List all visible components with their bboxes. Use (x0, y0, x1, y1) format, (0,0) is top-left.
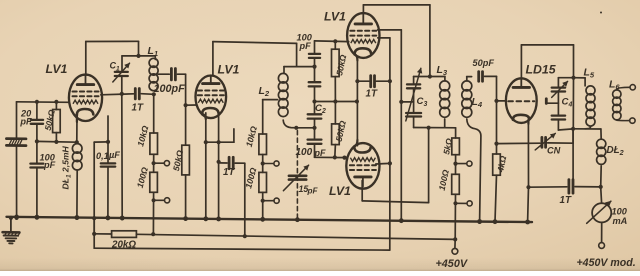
wire +450 stem (454, 239, 456, 248)
junction col2 bus (261, 217, 265, 221)
wire input left column bottom (16, 146, 18, 218)
resistor 50kΩ tube2 grid leak (171, 105, 189, 219)
junction tap3 (261, 161, 265, 165)
wire C3 mid (413, 89, 415, 112)
svg-text:LV1: LV1 (329, 184, 351, 198)
wire x401 to bus (400, 102, 402, 221)
junction 0.1uF bus (106, 216, 110, 220)
wire L1 100pF tap (158, 73, 169, 75)
wire x357 down (356, 81, 358, 146)
wire L1 column (153, 94, 155, 133)
wire upper tube fil lead (347, 41, 348, 43)
inductor L2 (278, 67, 296, 128)
junction L4 bus (478, 220, 482, 224)
svg-text:1T: 1T (223, 167, 235, 178)
junction L2 link col (312, 65, 316, 69)
junction 1T3 left (355, 79, 359, 83)
wire 100Ω2 to bus (262, 192, 264, 219)
svg-text:1T: 1T (560, 195, 572, 206)
junction x401 bus (399, 219, 403, 223)
junction t2cath bus (204, 217, 208, 221)
wire osc col top (314, 41, 316, 53)
wire LD15 plate to tank (521, 45, 573, 78)
wire lower grid lead (376, 162, 390, 165)
junction LD15 grid (494, 99, 498, 103)
label C3 (417, 96, 428, 108)
wire C4 bottom link (558, 121, 573, 131)
wire tube2 cathode lead (205, 113, 207, 142)
junction node x77 (75, 140, 79, 144)
junction C1 grid (120, 92, 124, 96)
svg-text:1T: 1T (366, 88, 378, 99)
capacitor 100pF osc top (297, 33, 321, 58)
junction tap6 (453, 201, 457, 205)
capacitor C1 trimmer (110, 61, 130, 83)
junction C3 tap (399, 100, 403, 104)
capacitor 50pF (473, 58, 495, 81)
capacitor CN trimmer (535, 133, 560, 155)
resistor 5kΩ (441, 128, 459, 156)
label C4 (562, 97, 573, 109)
wire tank right side (572, 78, 574, 129)
capacitor C3 upper (407, 77, 420, 89)
inductor DL1 2.5mH (61, 144, 82, 218)
label LV1 third (324, 10, 346, 24)
wire tube1 grid rail (101, 94, 134, 95)
junction 4k bus (493, 219, 497, 223)
wire tank bottom out (573, 128, 601, 130)
wire tank top (414, 76, 445, 78)
terminal +450V mod (599, 243, 605, 249)
terminal tap3 (274, 161, 279, 166)
wire cathode node y142 (37, 140, 77, 143)
wire osc col s4 (314, 120, 316, 139)
inductor L6 (613, 87, 630, 120)
wire 100Ω3 down (454, 194, 456, 239)
capacitor 1T first (132, 89, 144, 114)
junction x245 middle rail (243, 234, 247, 238)
capacitor 1T fourth (529, 180, 601, 206)
wire osc col s2 (314, 59, 316, 81)
wire upper grid1 lead (378, 30, 402, 102)
label L3 (437, 64, 448, 77)
junction meter top (599, 185, 603, 189)
junction rail x37 (35, 100, 39, 104)
capacitor 15pF variable (283, 165, 318, 195)
junction CN tap (494, 142, 498, 146)
label L2 (259, 85, 270, 98)
label DL2 (607, 145, 624, 157)
junction 50k4 bottom (333, 155, 337, 159)
wire C4L5 to 1T4 (572, 129, 574, 181)
wire lower plate lead (362, 128, 428, 203)
label LV1 first (46, 62, 68, 76)
junction +450 rail (453, 237, 457, 241)
junction plate rail corner (136, 54, 140, 58)
wire 100pF to bus (36, 169, 38, 218)
capacitor 100pF input (30, 141, 55, 169)
junction x357 y101 (355, 99, 359, 103)
junction cath 1T4 (526, 185, 530, 189)
junction 50k2 bus (184, 217, 188, 221)
wire 1T to L1 bottom (141, 93, 154, 96)
tube LV1 second (196, 76, 227, 120)
resistor 100Ω third (437, 168, 460, 194)
terminal L6 bottom (630, 118, 635, 123)
inductor L4 (462, 77, 481, 222)
junction 1T2 left (217, 160, 221, 164)
junctions on ground bus (14, 215, 530, 225)
svg-text:pF: pF (299, 41, 312, 51)
wire grid2 into tube (186, 104, 197, 106)
label LV1 fourth (329, 184, 351, 198)
wire LD15 cathode (527, 119, 530, 221)
junction rail x56 (54, 100, 58, 104)
junction cath bus (526, 220, 530, 224)
inductor L5 (574, 78, 596, 129)
junction DL1 bus (75, 216, 79, 220)
wire C4 mid tap (546, 93, 558, 115)
svg-text:+450V: +450V (436, 258, 468, 270)
junction col y101 (312, 99, 316, 103)
junction x94 bus (92, 216, 96, 220)
ground (3, 218, 20, 244)
label L6 (609, 79, 620, 92)
wire tap3 branch (263, 163, 274, 165)
capacitor C4 upper (552, 78, 568, 98)
wire upper grid2 lead (378, 38, 390, 81)
junction tube2 cathode (204, 140, 208, 144)
wire osc col s5 (314, 145, 316, 158)
wire L2 tap link (263, 100, 278, 134)
junction 0.1uF node (106, 140, 110, 144)
tube LV1 first (69, 75, 102, 122)
wire +450V middle rail left (94, 233, 111, 235)
inductor L3 (440, 77, 450, 128)
wire upper plate to tank (363, 5, 430, 77)
junction tube2 grid (184, 103, 188, 107)
wire C4 top link (558, 77, 573, 79)
junction x218 bus (217, 217, 221, 221)
wire LD15 grid wire (497, 100, 507, 102)
wire bottom return rail (94, 248, 390, 250)
terminal tap2 (165, 198, 170, 203)
junction input column bus (15, 216, 19, 220)
terminal tap1 (164, 161, 169, 166)
junction tank bottom (427, 126, 431, 130)
svg-text:pF: pF (307, 186, 319, 195)
wire osc col s3 (314, 87, 316, 113)
terminal tap6 (467, 201, 472, 206)
resistor 50kΩ fourth (332, 102, 348, 158)
wire tap5 branch (456, 163, 467, 165)
wire C1 top lead (121, 56, 123, 71)
junction C4 bottom (571, 127, 575, 131)
junction col127 (312, 126, 316, 130)
wire 0.1uF top link (94, 116, 108, 234)
junction 1T3 right (388, 79, 392, 83)
junction 50k3 top (333, 39, 337, 43)
terminal L6 top (630, 85, 635, 90)
wire 0.1uF to bus (107, 168, 109, 219)
junction x218 node (217, 140, 221, 144)
junction tap4 (261, 199, 265, 203)
wire upper cathode lead (356, 58, 358, 82)
wire tube2 fil lead (218, 115, 220, 161)
wire x390 down (389, 81, 391, 250)
wire main ground bus (7, 217, 533, 222)
wire tap1 branch (154, 162, 165, 164)
svg-text:+450V mod.: +450V mod. (577, 257, 636, 269)
resistor 100Ω second (243, 166, 266, 192)
junction node x37 (35, 139, 39, 143)
junction tap2 (152, 198, 156, 202)
tube LV1 fourth flipped (346, 140, 379, 189)
junction 100pF bus (35, 216, 39, 220)
junction ground stem (9, 216, 13, 220)
wire 100Ω to middle rail (152, 192, 154, 234)
svg-text:LV1: LV1 (46, 62, 68, 76)
junction L2 bottom (294, 126, 298, 130)
svg-text:pF: pF (19, 117, 32, 127)
svg-text:CN: CN (547, 146, 561, 156)
label LD15 (526, 63, 556, 77)
wire L2 top link (284, 66, 315, 68)
junction lower tube edge (342, 156, 346, 160)
capacitor C4 lower (552, 116, 565, 120)
svg-text:100: 100 (612, 207, 628, 217)
resistor 4kΩ grid leak (493, 101, 509, 222)
wire L2 bottom link (296, 127, 314, 129)
wire top rail right (315, 40, 349, 43)
svg-text:50pF: 50pF (473, 58, 495, 68)
wire 10k2 link (262, 155, 264, 173)
capacitor 1T second (223, 157, 235, 178)
capacitor 1T third (366, 76, 378, 100)
svg-text:1T: 1T (132, 102, 144, 113)
wire C1 bottom lead (121, 77, 123, 94)
wire 50pF left (467, 76, 472, 78)
label L5 (584, 67, 595, 80)
wire 20pF to node (36, 125, 38, 142)
wire CN right (548, 129, 574, 143)
svg-text:LV1: LV1 (324, 10, 346, 24)
inductor DL2 (597, 129, 606, 187)
wire bus-to-rails drop at x94 (93, 218, 95, 248)
wire 50pF to grid (485, 76, 497, 101)
wire 100pF to grid2 (177, 74, 185, 105)
capacitor osc mid (309, 82, 321, 86)
wire tube1 cathode lead (76, 115, 78, 142)
wire tube2 cathode to bus (205, 142, 207, 219)
wire CN left (497, 142, 540, 144)
wire +450V middle rail right (136, 234, 455, 239)
junction x390 grid (388, 161, 392, 165)
inductor L1 (148, 45, 159, 91)
svg-text:LD15: LD15 (526, 63, 556, 77)
junction C1col bus (120, 216, 124, 220)
wire tube2 plate riser (213, 42, 297, 76)
capacitor 0.1uF (96, 142, 120, 167)
svg-text:0,1: 0,1 (96, 151, 109, 161)
junction tap5 (453, 162, 457, 166)
label +450V (436, 258, 468, 270)
junction 50k mid (333, 99, 337, 103)
terminal tap4 (274, 198, 279, 203)
wire grid link lower tube (315, 156, 348, 158)
tube LD15 (506, 78, 537, 124)
resistor 10kΩ first (135, 124, 157, 154)
wire gang dashed line (296, 131, 298, 220)
svg-text:pF: pF (314, 148, 326, 158)
wire grid rail y102 (17, 101, 70, 104)
wire 10k-100 link (153, 154, 155, 172)
capacitor input blocking (hatched) (6, 139, 26, 146)
wire 1T3 wiring (357, 80, 390, 82)
wire tank bottom (414, 118, 445, 128)
wire tap4 branch (263, 200, 274, 202)
svg-text:mA: mA (613, 216, 628, 226)
capacitor 20pF (19, 102, 43, 127)
label +450V mod (577, 257, 636, 269)
capacitor 100pF osc bottom (296, 140, 326, 159)
junction plate tank top (428, 74, 432, 78)
svg-text:100pF: 100pF (154, 83, 186, 95)
svg-text:µF: µF (108, 150, 120, 160)
resistor 100Ω first (135, 166, 158, 192)
wire C3 tap (401, 101, 413, 103)
svg-text:LV1: LV1 (218, 63, 240, 77)
meter 100mA (587, 187, 628, 226)
junction L1 bottom (152, 92, 156, 96)
wire x218 to bus (218, 162, 220, 219)
wire L3 to 5k (445, 127, 456, 129)
terminal tap5 (467, 161, 472, 166)
capacitor 100pF coupling (154, 69, 186, 96)
svg-text:20kΩ: 20kΩ (111, 240, 136, 251)
capacitor C3 lower (406, 113, 421, 117)
resistor 50kΩ third (332, 41, 349, 101)
wire 1T2 wiring (219, 163, 245, 236)
junction 20kΩ right (151, 232, 155, 236)
junction dashed bus (295, 218, 299, 222)
resistor 10kΩ second (244, 125, 267, 155)
label L4 (472, 96, 483, 109)
junction x94 middle rail (92, 232, 96, 236)
wire C1 ground column (121, 94, 123, 218)
capacitor C2 (308, 103, 326, 119)
terminal +450V (452, 248, 458, 254)
wire input left column top (16, 102, 18, 137)
wire tap6 branch (456, 202, 467, 204)
wire cathode cross (206, 129, 234, 142)
junction node x56 (54, 140, 58, 144)
junction C4 top (571, 76, 575, 80)
tube LV1 third top (347, 13, 379, 60)
resistor 20kΩ (111, 231, 136, 251)
wire meter to terminal (601, 222, 603, 242)
resistor 50kΩ tube1 grid leak (43, 102, 61, 142)
arrow C3 variable (406, 68, 422, 121)
wire C1-L1 top link (122, 55, 155, 57)
wire 5k to tap (455, 155, 457, 175)
wire tap2 branch (154, 199, 165, 201)
junction tap1 (152, 161, 156, 165)
svg-text:pF: pF (43, 160, 56, 170)
wire tube1 plate riser (86, 41, 139, 75)
label LV1 second (218, 63, 240, 77)
wire mid rail y101 (315, 101, 358, 103)
